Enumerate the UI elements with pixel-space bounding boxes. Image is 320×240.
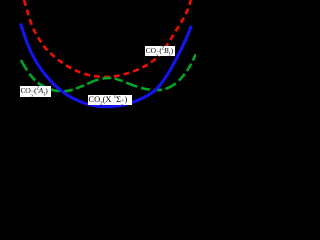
label CO2-(2A1): [20, 86, 51, 97]
red dashed curve CO2- 2B1 left+right arms: [24, 0, 191, 77]
green dashed curve CO2- 2A1: [21, 54, 196, 91]
label CO2-(2B1): [145, 46, 175, 56]
blue solid curve CO2 X1Sigmag+: [21, 24, 192, 107]
label CO2(X 1Sigma g+): [88, 95, 132, 105]
